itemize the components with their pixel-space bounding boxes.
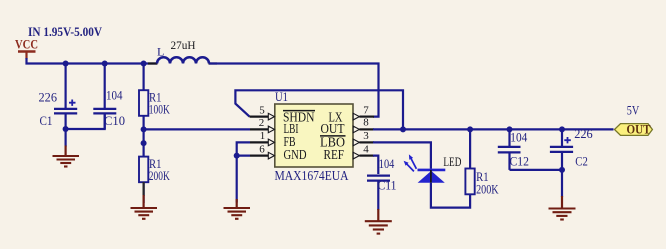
capacitor C10 [93, 64, 125, 130]
wire REF to C11 [373, 156, 378, 174]
junction C1 bottom [63, 126, 69, 132]
junction main rail C10 [102, 61, 108, 67]
svg-text:C2: C2 [575, 155, 588, 169]
pin 3 LBO [353, 130, 374, 146]
junction C12 top [507, 126, 513, 132]
svg-text:104: 104 [106, 89, 123, 103]
pin 4 REF [353, 143, 374, 159]
pin 2 LBI [250, 117, 275, 133]
junction FB GND [234, 153, 240, 159]
svg-text:7: 7 [363, 104, 369, 116]
wire OUT rail [373, 128, 614, 130]
wire LED to R1 [431, 183, 470, 208]
ground (FB/GND pin) [224, 199, 251, 219]
resistor R1 200K (LED) [465, 129, 498, 196]
capacitor C2 [550, 127, 593, 170]
pin 1 FB [250, 130, 275, 146]
junction SHDN OUT [400, 126, 406, 132]
LED [404, 154, 462, 182]
svg-text:226: 226 [574, 127, 593, 141]
svg-text:5: 5 [259, 104, 265, 116]
capacitor C12 [498, 129, 529, 170]
svg-text:6: 6 [259, 143, 265, 155]
wire inductor to LX [209, 64, 379, 117]
svg-text:4: 4 [363, 143, 369, 155]
junction main rail C1 [63, 61, 69, 67]
pin 6 GND [250, 143, 275, 159]
junction C12 C2 bottom [559, 167, 565, 173]
svg-text:1: 1 [260, 130, 266, 142]
wire SHDN net [235, 90, 403, 129]
ground (R1 200K) [131, 182, 158, 219]
IC U1 MAX1674EUA body [275, 90, 354, 184]
svg-text:C10: C10 [104, 114, 125, 128]
svg-text:104: 104 [379, 157, 395, 171]
svg-text:100K: 100K [149, 103, 170, 117]
svg-text:C11: C11 [378, 178, 397, 192]
pin names left column [283, 110, 315, 163]
svg-text:5V: 5V [627, 103, 640, 117]
svg-text:IN 1.95V-5.00V: IN 1.95V-5.00V [28, 25, 102, 39]
resistor R1 100K [139, 64, 170, 131]
svg-text:REF: REF [324, 147, 345, 162]
svg-text:8: 8 [363, 116, 369, 128]
svg-text:200K: 200K [476, 183, 499, 197]
wire GND net [237, 156, 250, 203]
svg-text:3: 3 [363, 130, 369, 142]
svg-text:MAX1674EUA: MAX1674EUA [275, 169, 350, 184]
ground (C11) [365, 209, 392, 234]
capacitor C1 [39, 64, 78, 130]
junction divider lower [141, 140, 147, 146]
wire C12 to C2 bottom [510, 169, 563, 171]
inductor L 27uH [148, 38, 217, 64]
wire FB net [237, 142, 250, 155]
wire LBI net [144, 128, 250, 130]
svg-text:C12: C12 [510, 155, 530, 169]
svg-text:VCC: VCC [15, 37, 38, 52]
svg-text:226: 226 [39, 91, 58, 105]
wire divider node [143, 129, 145, 156]
svg-text:OUT: OUT [627, 123, 652, 137]
svg-text:GND: GND [284, 147, 307, 162]
svg-text:U1: U1 [275, 90, 288, 104]
svg-text:104: 104 [510, 130, 528, 144]
pin 7 LX [353, 104, 374, 120]
pin 8 OUT [353, 116, 374, 132]
svg-text:C1: C1 [40, 114, 53, 128]
port OUT [615, 123, 653, 137]
ground (C1) [53, 129, 80, 167]
resistor R1 200K [139, 157, 170, 203]
pin names right column [320, 110, 346, 163]
capacitor C11 [367, 157, 397, 210]
junction main rail R1 [141, 61, 147, 67]
wire LBO to LED [373, 142, 431, 168]
power symbol VCC [15, 37, 38, 60]
svg-text:27uH: 27uH [171, 38, 196, 52]
wire C1 to C10 bottom [66, 114, 105, 129]
junction divider upper [141, 126, 147, 132]
svg-text:2: 2 [259, 117, 265, 129]
pin 5 SHDN [250, 104, 275, 120]
svg-text:200K: 200K [149, 169, 170, 183]
wire VCC rail [27, 58, 158, 64]
svg-text:L: L [157, 45, 164, 59]
svg-text:LED: LED [443, 155, 461, 169]
ground (C2) [549, 170, 576, 220]
junction R1 LED top [467, 126, 473, 132]
junction C2 top [559, 126, 565, 132]
